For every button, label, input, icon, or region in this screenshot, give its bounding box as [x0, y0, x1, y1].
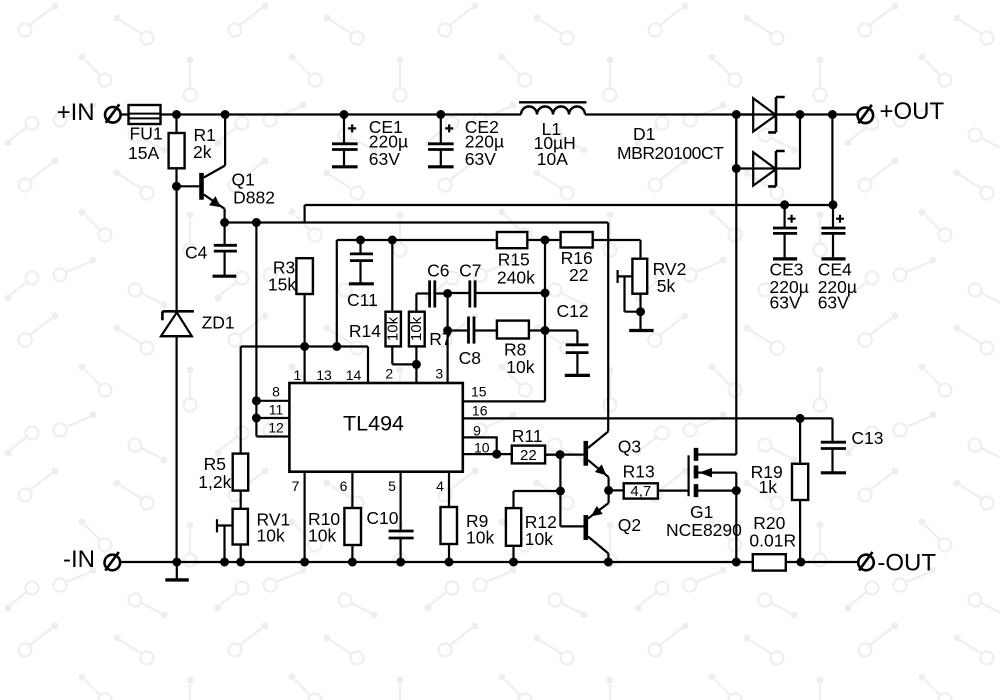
wire C11 leads	[359, 240, 361, 284]
capacitor C13	[821, 442, 846, 448]
svg-text:7: 7	[292, 478, 300, 494]
ground bar CE1	[332, 165, 358, 168]
svg-text:240k: 240k	[497, 267, 535, 287]
svg-text:10A: 10A	[537, 149, 568, 169]
schottky diode D1b	[753, 151, 785, 186]
svg-text:3: 3	[435, 366, 443, 382]
svg-text:10k: 10k	[525, 529, 553, 549]
svg-text:-IN: -IN	[63, 546, 95, 573]
wire ZD1 leads x=176.6	[176, 186, 178, 562]
svg-text:12: 12	[268, 419, 284, 435]
wire R5 RV1 column x=240.7	[240, 491, 242, 562]
svg-text:15k: 15k	[268, 275, 296, 295]
terminal +OUT	[858, 105, 874, 124]
svg-text:2k: 2k	[193, 142, 212, 162]
capacitor C6	[430, 280, 435, 307]
svg-text:5: 5	[388, 478, 396, 494]
wire C4 leads	[224, 223, 226, 277]
wire top +bus y=114.5	[121, 113, 858, 115]
svg-text:13: 13	[316, 367, 332, 383]
schottky diode D1a	[753, 97, 785, 132]
wire R11 right lead	[545, 454, 560, 456]
svg-text:R7: R7	[429, 329, 451, 349]
svg-text:C4: C4	[185, 243, 208, 263]
svg-text:1,2k: 1,2k	[198, 472, 231, 492]
transistor Q1	[202, 115, 226, 223]
wire R1 leads	[175, 115, 177, 187]
wire R13 leads	[609, 489, 689, 491]
wire G1 source lead	[698, 490, 736, 492]
svg-text:C7: C7	[459, 260, 481, 280]
potentiometer RV1	[233, 509, 248, 545]
svg-text:10k: 10k	[506, 357, 534, 377]
svg-text:63V: 63V	[818, 292, 849, 312]
capacitor C12	[566, 345, 589, 353]
wire C7 leads	[448, 292, 545, 294]
capacitor C4	[214, 245, 237, 251]
IC U1 TL494 box	[289, 383, 462, 472]
wire pin6 R10	[351, 472, 353, 562]
capacitor CE4	[821, 228, 845, 233]
resistor R5	[233, 454, 249, 491]
svg-text:10: 10	[474, 439, 490, 455]
svg-text:R11: R11	[512, 426, 543, 446]
svg-text:R14: R14	[349, 321, 381, 341]
terminal -OUT	[858, 552, 874, 571]
wire C13 lead lower	[831, 449, 833, 473]
svg-text:10k: 10k	[385, 316, 402, 341]
svg-text:1: 1	[294, 367, 302, 383]
wire C6 leads	[416, 292, 447, 294]
ground bar CE2	[428, 165, 454, 168]
svg-text:4,7: 4,7	[630, 483, 651, 500]
svg-text:Q3: Q3	[618, 437, 641, 457]
wire D1 cathode links	[776, 115, 800, 169]
wire node pin1 R3 x=304.6	[304, 294, 306, 383]
wire base node x=560.4	[514, 455, 587, 527]
svg-text:10k: 10k	[308, 526, 336, 546]
ground bar CE4	[821, 257, 845, 260]
svg-text:22: 22	[520, 447, 537, 464]
resistor R19	[792, 464, 808, 500]
wire pin13 riser x=336.8	[336, 240, 338, 347]
svg-text:R5: R5	[204, 454, 226, 474]
plus sign CE1	[348, 124, 356, 132]
wire Q1 emitter line y=222.5	[225, 221, 609, 223]
wire source riser x=736.3	[735, 473, 737, 562]
terminal +IN	[105, 104, 121, 123]
svg-text:6: 6	[340, 478, 348, 494]
svg-text:NCE8290: NCE8290	[666, 520, 742, 540]
wire CE3 leads	[783, 205, 785, 259]
wire R19 branch x=800.1	[799, 418, 801, 562]
capacitor CE1	[332, 144, 358, 150]
wire D1 anode feeds	[736, 115, 800, 169]
svg-text:ZD1: ZD1	[202, 313, 235, 333]
plus sign CE4	[836, 215, 844, 223]
ground symbol under -bus	[165, 578, 189, 581]
resistor R3	[296, 258, 313, 294]
resistor R9	[441, 507, 458, 544]
fuse FU1	[129, 105, 161, 124]
wire CE4 leads	[832, 205, 834, 259]
ground bar C11	[349, 282, 374, 285]
mosfet G1	[689, 448, 737, 497]
svg-text:4: 4	[436, 478, 444, 494]
wire pin9 pin10 jog	[463, 437, 512, 454]
svg-text:C13: C13	[851, 428, 883, 448]
svg-text:MBR20100CT: MBR20100CT	[617, 143, 724, 163]
wire feedback line y=204.8	[305, 115, 833, 223]
svg-text:1k: 1k	[759, 477, 778, 497]
wire ref line y=346.5	[241, 347, 368, 454]
ground bar C4	[213, 275, 237, 278]
wire node line x=256.4 pins 8/11/12	[256, 223, 289, 437]
svg-text:Q2: Q2	[618, 515, 641, 535]
wire CE2 leads	[440, 115, 442, 167]
ground bar C13	[821, 471, 846, 474]
resistor R16	[561, 232, 593, 248]
wire G1 drain lead	[698, 453, 736, 455]
svg-text:FU1: FU1	[130, 124, 163, 144]
capacitor CE2	[428, 144, 454, 150]
resistor R14	[386, 312, 401, 347]
plus sign CE2	[445, 124, 453, 132]
wire D1 anode link x=736.3 (part of drain riser)	[735, 115, 737, 169]
wire pin4 R9	[448, 472, 450, 562]
wire R14 leads	[392, 240, 416, 364]
wire ground stub under ZD1	[176, 562, 178, 580]
capacitor C10	[389, 531, 414, 538]
resistor R15	[497, 232, 527, 248]
svg-text:D882: D882	[233, 187, 275, 207]
resistor R7	[409, 312, 425, 347]
svg-text:C12: C12	[557, 301, 589, 321]
svg-text:63V: 63V	[465, 149, 496, 169]
svg-text:C8: C8	[459, 348, 481, 368]
svg-text:9: 9	[473, 423, 481, 439]
resistor R8	[497, 321, 529, 339]
ground bar C12	[565, 374, 590, 377]
svg-text:C6: C6	[427, 260, 449, 280]
svg-text:10k: 10k	[408, 316, 425, 341]
svg-text:11: 11	[269, 402, 284, 418]
wire R7 leads	[415, 294, 417, 384]
wire node x=545 feedback	[463, 240, 545, 401]
wire pin3 riser x=447.6	[447, 294, 449, 384]
resistor R10	[344, 508, 361, 545]
wire R12 leads	[512, 546, 514, 562]
wire drain riser x=736.3	[735, 115, 737, 455]
wire RV2 leads	[618, 270, 641, 331]
resistor R1	[169, 133, 185, 168]
svg-text:D1: D1	[633, 124, 655, 144]
inductor L1	[519, 102, 587, 114]
plus sign CE3	[788, 215, 796, 223]
wire pin7 x=304.6	[304, 472, 306, 562]
svg-text:C10: C10	[366, 508, 398, 528]
ground bar RV2	[629, 329, 653, 332]
svg-text:5k: 5k	[657, 276, 676, 296]
capacitor C8	[469, 317, 475, 344]
svg-text:15A: 15A	[128, 143, 159, 163]
wire C13 drop x=832.5	[831, 418, 833, 442]
potentiometer RV2	[632, 259, 647, 294]
svg-text:63V: 63V	[770, 292, 801, 312]
svg-text:14: 14	[346, 367, 362, 383]
transistor Q2	[586, 490, 609, 562]
svg-text:+IN: +IN	[57, 99, 95, 126]
wire pin5 C10	[400, 472, 402, 562]
wire C8 leads	[448, 329, 497, 331]
svg-text:TL494: TL494	[343, 412, 404, 436]
svg-text:R13: R13	[623, 461, 655, 481]
svg-text:2: 2	[385, 366, 393, 382]
svg-text:+OUT: +OUT	[880, 98, 945, 125]
svg-text:8: 8	[272, 384, 280, 400]
wire C12 branch	[545, 331, 577, 376]
svg-text:63V: 63V	[369, 149, 400, 169]
wire pin16 line y=418.4	[463, 417, 833, 419]
svg-text:22: 22	[569, 265, 588, 285]
resistor R12	[506, 508, 521, 546]
wire CE1 leads	[343, 115, 345, 167]
svg-text:16: 16	[472, 402, 488, 418]
capacitor CE3	[773, 228, 797, 233]
resistor R13	[624, 483, 658, 498]
wire bottom -bus y=562	[121, 561, 859, 563]
zener ZD1	[161, 311, 194, 336]
wire osc line y=240	[337, 240, 641, 259]
capacitor C11	[350, 254, 373, 261]
resistor R11	[512, 446, 545, 464]
svg-text:10k: 10k	[466, 528, 494, 548]
svg-text:G1: G1	[690, 502, 713, 522]
svg-text:15: 15	[471, 384, 487, 400]
terminal -IN	[105, 552, 121, 571]
svg-text:0.01R: 0.01R	[749, 531, 796, 551]
ground bar CE3	[773, 257, 797, 260]
wire RV1 wiper drop	[217, 519, 233, 562]
svg-text:C11: C11	[347, 290, 378, 310]
svg-text:10k: 10k	[257, 526, 285, 546]
resistor R20	[753, 554, 786, 570]
transistor Q3	[586, 432, 609, 491]
wire Q1 base lead	[177, 185, 202, 187]
svg-text:-OUT: -OUT	[877, 550, 936, 577]
capacitor C7	[470, 280, 475, 307]
wire R8 right lead	[529, 329, 545, 331]
wire Q3 collector riser x=608.2	[607, 223, 609, 432]
